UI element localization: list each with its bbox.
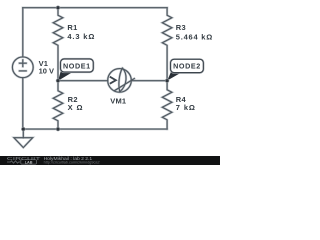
junction dot ground bbox=[21, 127, 25, 131]
junction dot bottom rail / R2 bbox=[56, 127, 60, 131]
node NODE1 flag bbox=[58, 59, 93, 81]
svg-text:VM1: VM1 bbox=[110, 96, 126, 105]
footer bar bbox=[0, 156, 220, 165]
label R1 value bbox=[67, 23, 95, 41]
svg-text:R1: R1 bbox=[67, 23, 77, 32]
svg-text:LAB: LAB bbox=[25, 160, 33, 164]
voltmeter VM1 arrow bbox=[110, 77, 116, 84]
svg-text:R3: R3 bbox=[176, 23, 186, 32]
label R2 value bbox=[68, 95, 84, 112]
junction dot node NODE2 bbox=[165, 79, 169, 83]
wires and symbols core pass bbox=[12, 8, 172, 148]
svg-text:4.3 kΩ: 4.3 kΩ bbox=[67, 32, 95, 41]
wires and symbols halo pass bbox=[12, 8, 172, 148]
svg-text:X Ω: X Ω bbox=[68, 103, 84, 112]
svg-text:http://circuitlab.com/c/kmndg9: http://circuitlab.com/c/kmndg9ca2 bbox=[44, 160, 101, 165]
svg-text:5.464 kΩ: 5.464 kΩ bbox=[176, 32, 213, 41]
junction dot node NODE1 bbox=[56, 79, 60, 83]
label R3 value bbox=[176, 23, 213, 41]
svg-text:10 V: 10 V bbox=[39, 67, 54, 76]
label R4 value bbox=[176, 95, 196, 112]
svg-text:7 kΩ: 7 kΩ bbox=[176, 103, 196, 112]
junction dot top rail / R1 bbox=[56, 6, 60, 10]
footer CircuitLab logo bbox=[7, 156, 41, 164]
svg-text:NODE2: NODE2 bbox=[173, 61, 201, 70]
node NODE2 flag bbox=[167, 59, 203, 80]
svg-text:NODE1: NODE1 bbox=[63, 61, 91, 70]
